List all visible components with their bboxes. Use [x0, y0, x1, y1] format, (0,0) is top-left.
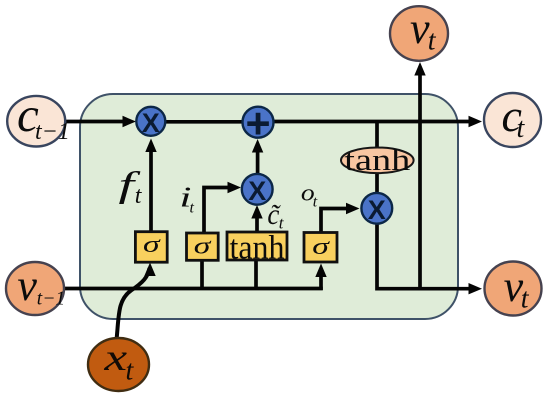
- svg-text:X: X: [368, 195, 386, 225]
- arrowhead into input multiply from left: [228, 182, 242, 193]
- wire tanh box up to input multiply: [255, 218, 259, 232]
- wire v-line from v_t-1 across the cell: [63, 287, 323, 291]
- node v_t top (output to next layer): [390, 4, 448, 61]
- arrowhead into multiply gate: [123, 116, 137, 127]
- wire curved input from x_t into sigma1: [117, 268, 150, 340]
- svg-text:X: X: [248, 176, 266, 206]
- arrowhead into right v_t: [469, 283, 483, 294]
- wire input multiply up to add gate: [256, 152, 260, 175]
- arrowhead into sigma1: [144, 263, 155, 277]
- label c~_t (candidate): [267, 199, 284, 233]
- node v_t-1 (previous hidden state): [6, 261, 65, 315]
- svg-text:t−1: t−1: [35, 119, 70, 145]
- svg-text:v: v: [17, 261, 37, 310]
- wire tanh ellipse to output multiply: [375, 171, 379, 195]
- arrowhead into c_t: [469, 116, 483, 127]
- svg-text:X: X: [142, 108, 160, 138]
- op tanh ellipse on cell state: [341, 142, 414, 177]
- svg-text:σ: σ: [312, 233, 330, 259]
- arrowhead into top v_t: [414, 62, 425, 76]
- wire v-line into tanh box: [254, 260, 258, 290]
- svg-text:t: t: [126, 356, 135, 387]
- svg-text:+: +: [245, 100, 270, 148]
- wire branch from c-line down to tanh ellipse: [375, 122, 379, 151]
- arrowhead into sigma3: [315, 264, 326, 278]
- node v_t right (hidden state output): [485, 262, 542, 316]
- op output multiply gate: [361, 193, 392, 225]
- wire sigma1 up to multiply gate: [149, 151, 153, 232]
- arrowhead into input multiply from below: [251, 205, 262, 219]
- svg-text:t−1: t−1: [37, 289, 65, 310]
- gate sigma1 (forget gate box): [135, 231, 167, 262]
- svg-text:t: t: [190, 200, 195, 217]
- arrowhead into multiply gate from below: [145, 139, 156, 153]
- node c_t-1 (previous cell state): [7, 87, 70, 147]
- svg-text:t: t: [428, 26, 437, 57]
- svg-text:tanh: tanh: [230, 230, 285, 267]
- label i_t: [179, 181, 194, 217]
- wire c-line from c_t-1 to multiply gate: [63, 120, 124, 124]
- wire output multiply down then right to v_t: [377, 223, 470, 289]
- label o_t: [301, 179, 318, 210]
- wire sigma2 elbow to input multiply: [204, 188, 229, 234]
- arrowhead into add gate from below: [252, 139, 263, 153]
- label f_t: [119, 165, 143, 209]
- svg-text:tanh: tanh: [344, 142, 411, 177]
- wire sigma3 elbow to output multiply: [321, 209, 347, 234]
- gate sigma3 (output gate box): [304, 233, 337, 263]
- wire up to top v_t (hidden-state vertical): [418, 74, 422, 291]
- arrowhead into output multiply from left: [346, 203, 360, 214]
- wire v-line into sigma3: [319, 277, 323, 290]
- svg-text:t: t: [313, 194, 318, 211]
- wire v-line into sigma2: [200, 260, 204, 290]
- wire multiply to add on c-line: [164, 120, 244, 124]
- node x_t (input): [88, 336, 149, 391]
- op multiply gate (forget): [136, 107, 165, 138]
- node c_t (next cell state): [484, 90, 541, 147]
- cell body (green rounded box): [80, 94, 458, 319]
- svg-text:t: t: [517, 113, 526, 144]
- op input multiply gate: [242, 174, 273, 206]
- svg-text:σ: σ: [194, 233, 212, 259]
- svg-text:x: x: [103, 336, 127, 378]
- op add gate: [243, 100, 274, 148]
- gate tanh box (candidate): [227, 230, 287, 267]
- wire add to c_t output: [272, 120, 470, 124]
- svg-text:σ: σ: [143, 231, 161, 257]
- svg-text:t: t: [521, 284, 530, 315]
- gate sigma2 (input gate box): [187, 233, 219, 260]
